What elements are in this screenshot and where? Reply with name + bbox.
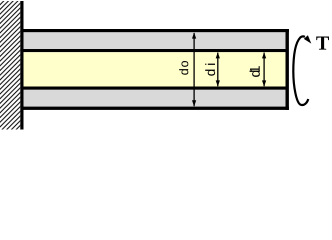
dimension line d1 [263,53,265,87]
label di [205,64,215,76]
shaft outer bottom edge [24,107,289,110]
shaft core (yellow) [24,52,286,86]
wall (hatched support) [0,1,20,130]
torque arrowhead [304,35,312,43]
label d1 [250,66,260,77]
torque arc arrow [293,36,308,105]
dimension line do [193,33,195,106]
shaft outer tube bottom band (gray) [24,90,287,107]
wall face line [20,1,23,130]
d1 top arrowhead [262,52,266,58]
shaft outer tube top band (gray) [24,32,287,49]
shaft inner top edge [24,49,286,52]
shaft right end cap [286,29,289,110]
do bottom arrowhead [192,100,196,106]
label do [179,61,188,75]
shaft inner bottom edge [24,87,286,90]
dimension line di [217,53,219,87]
di bottom arrowhead [216,80,220,86]
do top arrowhead [192,32,196,38]
label T [316,37,329,50]
di top arrowhead [216,52,220,58]
shaft outer top edge [24,29,289,32]
d1 bottom arrowhead [262,80,266,86]
